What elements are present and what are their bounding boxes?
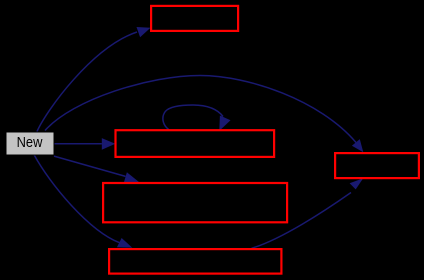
svg-text:New: New [17, 134, 43, 151]
node box1 (top) [151, 6, 238, 31]
edge box2->box2 self loop [163, 105, 231, 131]
node box5 (right) [335, 153, 419, 178]
node box2 (middle, with self loop) [116, 130, 275, 157]
edge New->box3 [54, 156, 139, 182]
edge New->box4 [34, 155, 132, 248]
edge New->box1 [37, 27, 151, 132]
node box3 (wide two-line) [103, 183, 287, 222]
node box4 (bottom) [109, 249, 281, 274]
edge New->box2 [54, 138, 115, 150]
edge New->box5 (long top arc) [45, 76, 363, 153]
edge box4->box5 [252, 178, 364, 248]
node New (current node, gray) [6, 132, 54, 155]
